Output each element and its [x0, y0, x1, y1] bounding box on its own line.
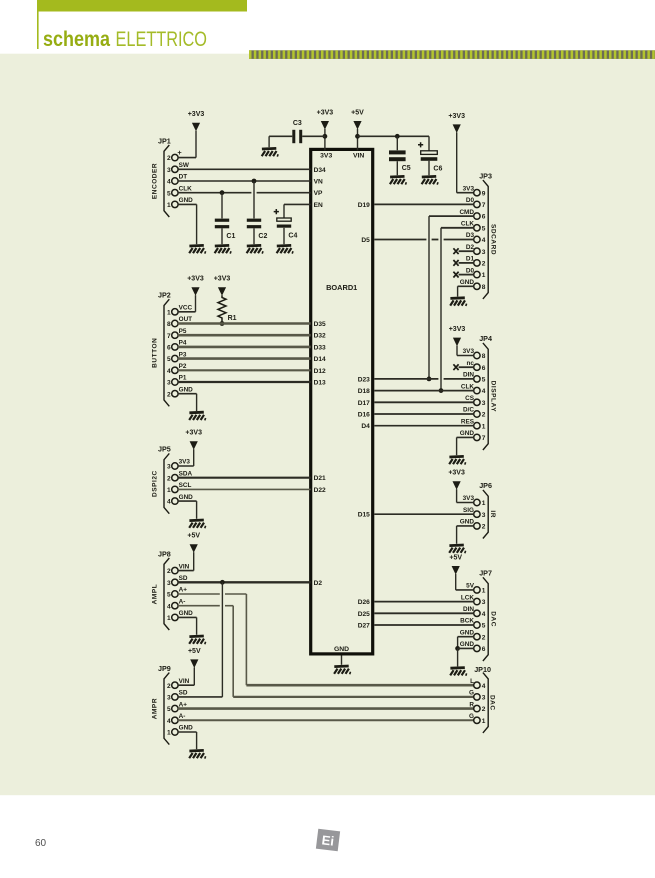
- power symbol +3V3 (3V3 rail): [317, 109, 334, 129]
- svg-text:3V3: 3V3: [179, 459, 191, 466]
- JP3 bracket: [483, 180, 488, 299]
- svg-text:4: 4: [167, 603, 171, 610]
- svg-text:1: 1: [482, 423, 486, 430]
- wire D26 to JP7 LCK: [374, 601, 474, 603]
- svg-text:4: 4: [167, 718, 171, 725]
- svg-text:GND: GND: [460, 629, 475, 636]
- JP2 pin 3 (P1): [167, 375, 187, 387]
- svg-text:R1: R1: [228, 315, 237, 322]
- svg-text:+3V3: +3V3: [214, 276, 231, 283]
- ground (JP9): [189, 750, 205, 758]
- JP7 bracket: [483, 577, 488, 661]
- JP4 pin 3 (CS): [465, 395, 486, 407]
- wire JP8 SD to D2: [178, 581, 311, 583]
- node CLK/C1 junction: [220, 190, 225, 195]
- svg-text:6: 6: [482, 365, 486, 372]
- wire +3V3 stem: [324, 129, 326, 150]
- svg-text:3: 3: [482, 249, 486, 256]
- svg-text:GND: GND: [460, 279, 475, 286]
- svg-text:P4: P4: [179, 340, 187, 347]
- wire JP2 OUT to D35: [178, 322, 311, 325]
- svg-text:DAC: DAC: [488, 695, 495, 711]
- svg-text:+: +: [177, 148, 182, 157]
- wire JP5 3V3 up: [178, 449, 194, 466]
- JP2 pin 4 (P2): [167, 363, 187, 375]
- svg-text:1: 1: [482, 500, 486, 507]
- svg-text:D15: D15: [358, 512, 370, 519]
- svg-text:C3: C3: [293, 120, 302, 127]
- svg-text:3V3: 3V3: [463, 495, 475, 502]
- svg-text:VN: VN: [314, 179, 323, 186]
- wire VIN rail to C5/C6: [358, 135, 430, 137]
- JP4 pin 4 (CLK): [461, 383, 486, 395]
- wire JP9 A+ to JP10 R: [178, 707, 474, 710]
- wire JP9 VIN up: [178, 667, 194, 685]
- svg-text:6: 6: [482, 646, 486, 653]
- wire JP7 5V up: [456, 574, 474, 590]
- power symbol +3V3 (JP3): [448, 113, 465, 133]
- publisher logo Ei: [316, 829, 340, 852]
- wire JP8 GND down: [178, 617, 197, 634]
- svg-text:JP8: JP8: [158, 549, 171, 558]
- ground (JP2): [189, 412, 205, 420]
- wire JP9 GND down: [178, 732, 197, 749]
- svg-text:ELETTRICO: ELETTRICO: [116, 28, 208, 51]
- power symbol +3V3 (JP1): [188, 111, 205, 131]
- svg-text:CLK: CLK: [179, 185, 193, 192]
- ground (C5): [390, 176, 406, 184]
- JP5 pin 1 (SCL): [167, 482, 192, 494]
- JP4 pin 7 (GND): [460, 430, 486, 442]
- wire JP3 GND down: [458, 286, 474, 296]
- wire D18 to JP4 CLK: [374, 390, 474, 392]
- JP1 pin 1 (GND): [167, 197, 193, 209]
- svg-text:D14: D14: [314, 356, 326, 363]
- wire JP1 pin2 to +3V3: [178, 131, 196, 158]
- connector JP1 header bracket: [158, 136, 171, 145]
- svg-text:DIN: DIN: [463, 372, 474, 379]
- JP2 pin 2 (GND): [167, 386, 193, 398]
- svg-text:5: 5: [482, 377, 486, 384]
- svg-text:EN: EN: [314, 202, 323, 209]
- JP2 pin 8 (OUT): [167, 316, 192, 328]
- JP9 pin 2 (VIN): [167, 678, 190, 690]
- ground (C6): [422, 176, 438, 184]
- JP8 pin 1 (GND): [167, 610, 193, 622]
- wire C2 bottom: [253, 228, 255, 244]
- power symbol +5V (JP7): [449, 554, 462, 574]
- svg-text:D22: D22: [314, 487, 326, 494]
- svg-text:JP4: JP4: [479, 334, 492, 343]
- svg-text:GND: GND: [460, 430, 475, 437]
- wire C6 top stub: [428, 136, 430, 151]
- wire D15 to JP6 SIG: [374, 513, 474, 515]
- JP3 pin 8 (GND): [460, 279, 486, 291]
- JP7 pin 3 (LCK): [461, 594, 486, 606]
- svg-text:1: 1: [482, 272, 486, 279]
- wire JP7 GND pin6: [458, 648, 474, 666]
- wire C1 bottom: [221, 228, 223, 244]
- ground (C2): [247, 245, 263, 253]
- wire C5 bottom stub: [396, 161, 398, 175]
- svg-text:3: 3: [167, 464, 171, 471]
- JP8 pin 4 (A-): [167, 598, 185, 610]
- JP10 pin 4 (L): [470, 678, 486, 690]
- JP4 pin 5 (DIN): [463, 372, 486, 384]
- wire C2 top: [253, 181, 255, 218]
- svg-text:GND: GND: [179, 386, 194, 393]
- wire JP2 P1 to D13: [178, 381, 311, 383]
- JP10 pin 1 (G): [469, 713, 486, 725]
- resistor R1: [218, 295, 226, 323]
- svg-text:+5V: +5V: [188, 648, 201, 655]
- wire JP5 GND down: [178, 501, 197, 519]
- svg-text:D21: D21: [314, 475, 326, 482]
- svg-text:1: 1: [167, 487, 171, 494]
- ground (JP6): [449, 545, 465, 553]
- wire +5V stem: [357, 129, 359, 150]
- svg-text:D/C: D/C: [463, 407, 474, 414]
- wire C4 bottom: [283, 228, 285, 244]
- svg-text:2: 2: [482, 524, 486, 531]
- svg-text:+5V: +5V: [351, 109, 364, 116]
- JP1 pin 2 (n/a): [167, 154, 178, 162]
- svg-text:4: 4: [482, 388, 486, 395]
- svg-text:3: 3: [482, 695, 486, 702]
- JP9 pin 5 (A+): [167, 701, 187, 713]
- svg-text:5: 5: [482, 623, 486, 630]
- svg-text:CLK: CLK: [461, 383, 475, 390]
- svg-text:CS: CS: [465, 395, 475, 402]
- power symbol +3V3 (JP2 VCC): [187, 276, 204, 296]
- svg-text:ENCODER: ENCODER: [151, 163, 158, 199]
- capacitor C2: [247, 219, 261, 229]
- JP10 pin 2 (R): [469, 701, 485, 713]
- svg-text:DAC: DAC: [490, 611, 497, 627]
- power symbol +5V (JP8): [187, 533, 200, 553]
- JP2 bracket: [164, 299, 169, 406]
- JP6 pin 3 (SIG): [463, 507, 486, 519]
- node D18/CLK junction: [439, 388, 444, 393]
- svg-text:C5: C5: [402, 165, 411, 172]
- power symbol +3V3 (JP6): [448, 470, 465, 490]
- svg-text:VIN: VIN: [179, 678, 190, 685]
- svg-text:VP: VP: [314, 190, 323, 197]
- svg-text:P1: P1: [179, 375, 187, 382]
- svg-text:D32: D32: [314, 333, 326, 340]
- wire JP2 P3 to D14: [178, 357, 311, 360]
- svg-text:P5: P5: [179, 328, 187, 335]
- header green bar: [37, 0, 247, 12]
- JP7 pin 4 (DIN): [463, 606, 486, 618]
- svg-text:C2: C2: [258, 233, 267, 240]
- JP10 pin 3 (G): [469, 690, 486, 702]
- svg-text:nc: nc: [467, 360, 475, 367]
- svg-text:4: 4: [167, 368, 171, 375]
- wire JP9 A- to JP10 G: [178, 719, 474, 721]
- svg-text:D16: D16: [358, 412, 370, 419]
- svg-text:GND: GND: [460, 519, 475, 526]
- wire JP4 GND down: [457, 437, 474, 455]
- svg-text:D0: D0: [466, 267, 475, 274]
- ground (JP4): [449, 456, 465, 464]
- JP7 pin 5 (BCK): [460, 618, 486, 630]
- svg-text:+3V3: +3V3: [188, 111, 205, 118]
- wire JP2 P5 to D32: [178, 334, 311, 337]
- svg-text:4: 4: [482, 611, 486, 618]
- svg-text:D25: D25: [358, 611, 370, 618]
- svg-text:D33: D33: [314, 344, 326, 351]
- svg-text:2: 2: [167, 391, 171, 398]
- JP1 pin 5 (CLK): [167, 185, 192, 197]
- svg-text:AMPR: AMPR: [151, 698, 158, 719]
- JP4 pin 2 (D/C): [463, 407, 486, 419]
- header vertical rule: [37, 12, 39, 50]
- JP7 pin 2 (GND): [460, 629, 486, 641]
- JP8 pin 5 (A+): [167, 587, 187, 599]
- svg-text:D5: D5: [361, 237, 370, 244]
- svg-text:8: 8: [482, 284, 486, 291]
- svg-text:5: 5: [167, 592, 171, 599]
- svg-text:2: 2: [482, 634, 486, 641]
- svg-text:LCK: LCK: [461, 594, 475, 601]
- svg-text:+3V3: +3V3: [448, 113, 465, 120]
- wire JP2 P4 to D33: [178, 346, 311, 349]
- svg-text:3: 3: [167, 580, 171, 587]
- wire D17 to JP4 CS: [374, 401, 474, 403]
- power symbol +3V3 (JP4): [449, 326, 466, 346]
- svg-text:JP10: JP10: [474, 665, 491, 674]
- JP4 bracket: [483, 343, 488, 450]
- ground (C4): [277, 245, 293, 253]
- svg-text:JP9: JP9: [158, 664, 171, 673]
- svg-text:2: 2: [167, 683, 171, 690]
- svg-text:4: 4: [482, 237, 486, 244]
- svg-text:7: 7: [167, 333, 171, 340]
- JP6 bracket: [483, 490, 488, 539]
- svg-text:D1: D1: [466, 256, 475, 263]
- svg-text:SW: SW: [179, 162, 190, 169]
- JP2 pin 5 (P3): [167, 351, 187, 363]
- svg-text:2: 2: [482, 412, 486, 419]
- svg-text:C4: C4: [288, 233, 297, 240]
- connector JP4 header: [479, 334, 492, 343]
- svg-text:OUT: OUT: [179, 316, 193, 323]
- svg-text:DIN: DIN: [463, 606, 474, 613]
- JP8 pin 3 (SD): [167, 575, 188, 587]
- wire D23 to JP4 DIN: [374, 378, 474, 380]
- svg-text:D17: D17: [358, 400, 370, 407]
- JP3 D1 no-connect stub: [453, 260, 474, 266]
- svg-text:+3V3: +3V3: [449, 326, 466, 333]
- svg-text:A-: A-: [179, 598, 186, 605]
- svg-text:D27: D27: [358, 623, 370, 630]
- svg-text:3V3: 3V3: [320, 152, 332, 159]
- capacitor C6: [418, 142, 437, 161]
- wire +3V3 to JP3 pin9: [457, 132, 474, 192]
- wire JP7 GND pin2: [458, 637, 474, 649]
- svg-text:5: 5: [167, 356, 171, 363]
- page number: [35, 838, 46, 849]
- svg-text:3: 3: [167, 695, 171, 702]
- svg-text:3V3: 3V3: [463, 348, 475, 355]
- JP9 pin 1 (GND): [167, 725, 193, 737]
- svg-text:CMD: CMD: [459, 209, 474, 216]
- wire JP6 GND down: [457, 526, 474, 544]
- svg-text:+3V3: +3V3: [448, 470, 465, 477]
- wire JP3 CMD to D23 node: [429, 216, 474, 379]
- node VIN junction: [355, 134, 360, 139]
- svg-text:GND: GND: [334, 646, 349, 653]
- svg-text:+3V3: +3V3: [187, 276, 204, 283]
- svg-text:D2: D2: [466, 244, 475, 251]
- JP3 D2 no-connect stub: [453, 248, 474, 254]
- svg-text:BCK: BCK: [460, 618, 474, 625]
- JP5 bracket: [164, 453, 169, 513]
- svg-text:SCL: SCL: [179, 482, 192, 489]
- svg-text:GND: GND: [179, 197, 194, 204]
- ground (C3): [262, 148, 278, 156]
- svg-text:5: 5: [167, 190, 171, 197]
- svg-text:P3: P3: [179, 351, 187, 358]
- svg-text:2: 2: [482, 261, 486, 268]
- svg-text:D35: D35: [314, 321, 326, 328]
- svg-text:G: G: [469, 713, 474, 720]
- JP5 pin 4 (GND): [167, 494, 193, 506]
- node SD junction: [220, 580, 225, 585]
- JP7 pin 6 (GND): [460, 641, 486, 653]
- JP4 pin 8 (3V3): [463, 348, 486, 360]
- wire JP2 VCC to +3V3: [178, 295, 196, 312]
- wire SD junction down to JP9 SD: [221, 582, 223, 697]
- svg-text:IR: IR: [489, 510, 496, 518]
- svg-text:VIN: VIN: [179, 563, 190, 570]
- capacitor C4: [274, 209, 291, 228]
- wire C5 top stub: [396, 136, 398, 150]
- connector JP8 header bracket: [158, 549, 171, 558]
- svg-text:BUTTON: BUTTON: [151, 338, 158, 368]
- svg-text:5: 5: [167, 706, 171, 713]
- svg-text:DSPI2C: DSPI2C: [151, 470, 158, 497]
- svg-text:BOARD1: BOARD1: [326, 283, 357, 292]
- svg-text:1: 1: [167, 309, 171, 316]
- svg-text:SD: SD: [179, 575, 188, 582]
- connector JP3 header: [479, 171, 492, 180]
- svg-text:VCC: VCC: [179, 305, 193, 312]
- svg-text:AMPL: AMPL: [151, 584, 158, 605]
- svg-text:6: 6: [167, 345, 171, 352]
- svg-text:VIN: VIN: [353, 152, 364, 159]
- svg-text:D4: D4: [361, 423, 370, 430]
- node JP7 GND junction: [455, 646, 460, 651]
- svg-text:2: 2: [167, 475, 171, 482]
- ground (C1): [215, 245, 231, 253]
- wire JP1 DT to VN: [178, 180, 311, 182]
- JP8 bracket: [164, 558, 169, 630]
- svg-text:7: 7: [482, 202, 486, 209]
- svg-text:1: 1: [167, 202, 171, 209]
- wire JP1 GND down: [178, 204, 197, 244]
- svg-text:1: 1: [167, 615, 171, 622]
- svg-text:3: 3: [482, 400, 486, 407]
- JP3 pin 1 (D0): [466, 267, 486, 279]
- JP3 pin 2 (D1): [466, 256, 486, 268]
- svg-text:GND: GND: [179, 494, 194, 501]
- svg-text:RES: RES: [461, 418, 475, 425]
- JP3 pin 7 (D0): [466, 197, 486, 209]
- ground (JP3): [450, 298, 466, 306]
- JP3 pin 4 (D3): [466, 232, 486, 244]
- svg-text:+3V3: +3V3: [317, 109, 334, 116]
- wire JP5 SDA to D21: [178, 477, 311, 479]
- wire D25 to JP7 DIN: [374, 612, 474, 614]
- svg-text:C1: C1: [226, 233, 235, 240]
- svg-text:7: 7: [482, 435, 486, 442]
- svg-text:D0: D0: [466, 197, 475, 204]
- capacitor C5: [389, 150, 406, 161]
- JP3 D0 no-connect stub: [453, 272, 474, 278]
- wire JP8 A+ to JP10 L: [178, 594, 474, 685]
- JP9 bracket: [164, 673, 169, 745]
- header striped band: [249, 50, 655, 59]
- svg-text:G: G: [469, 690, 474, 697]
- JP3 pin 3 (D2): [466, 244, 486, 256]
- JP4 pin 6 (nc): [467, 360, 486, 372]
- wire JP2 P2 to D12: [178, 369, 311, 371]
- node C5 junction: [395, 134, 400, 139]
- svg-text:GND: GND: [179, 725, 194, 732]
- svg-text:1: 1: [167, 730, 171, 737]
- svg-text:DISPLAY: DISPLAY: [490, 381, 497, 413]
- svg-text:5: 5: [482, 225, 486, 232]
- wire JP6 3V3 up: [457, 489, 474, 502]
- svg-text:3V3: 3V3: [463, 185, 475, 192]
- power symbol +3V3 (JP5): [185, 430, 202, 450]
- svg-text:GND: GND: [179, 610, 194, 617]
- svg-text:5V: 5V: [466, 583, 475, 590]
- node DT/C2 junction: [252, 179, 257, 184]
- power symbol +5V (JP9): [188, 648, 201, 668]
- wire EN to C4: [284, 204, 311, 217]
- JP3 pin 5 (CLK): [461, 221, 486, 233]
- connector JP6 header: [479, 481, 492, 490]
- svg-text:JP6: JP6: [479, 481, 492, 490]
- wire JP2 GND down: [178, 394, 197, 411]
- svg-text:3: 3: [167, 167, 171, 174]
- capacitor C1: [215, 219, 229, 229]
- JP3 pin 6 (CMD): [459, 209, 485, 221]
- svg-text:JP1: JP1: [158, 136, 171, 145]
- JP1 bracket: [164, 145, 169, 217]
- svg-text:+3V3: +3V3: [185, 430, 202, 437]
- svg-text:JP5: JP5: [158, 445, 171, 454]
- JP3 pin 9 (3V3): [463, 185, 486, 197]
- JP7 pin 1 (5V): [466, 583, 486, 595]
- svg-text:4: 4: [167, 179, 171, 186]
- svg-text:1: 1: [482, 588, 486, 595]
- svg-text:3: 3: [167, 380, 171, 387]
- wire C3 right to 3V3 node: [302, 135, 325, 137]
- node 3V3 junction: [323, 134, 328, 139]
- JP5 pin 3 (3V3): [167, 459, 190, 471]
- svg-text:D23: D23: [358, 376, 370, 383]
- svg-text:SDA: SDA: [179, 470, 193, 477]
- wire JP1 SW to D34: [178, 168, 311, 170]
- svg-text:D34: D34: [314, 167, 326, 174]
- JP2 pin 6 (P4): [167, 340, 187, 352]
- JP10 bracket: [483, 673, 488, 733]
- svg-text:JP7: JP7: [479, 569, 492, 578]
